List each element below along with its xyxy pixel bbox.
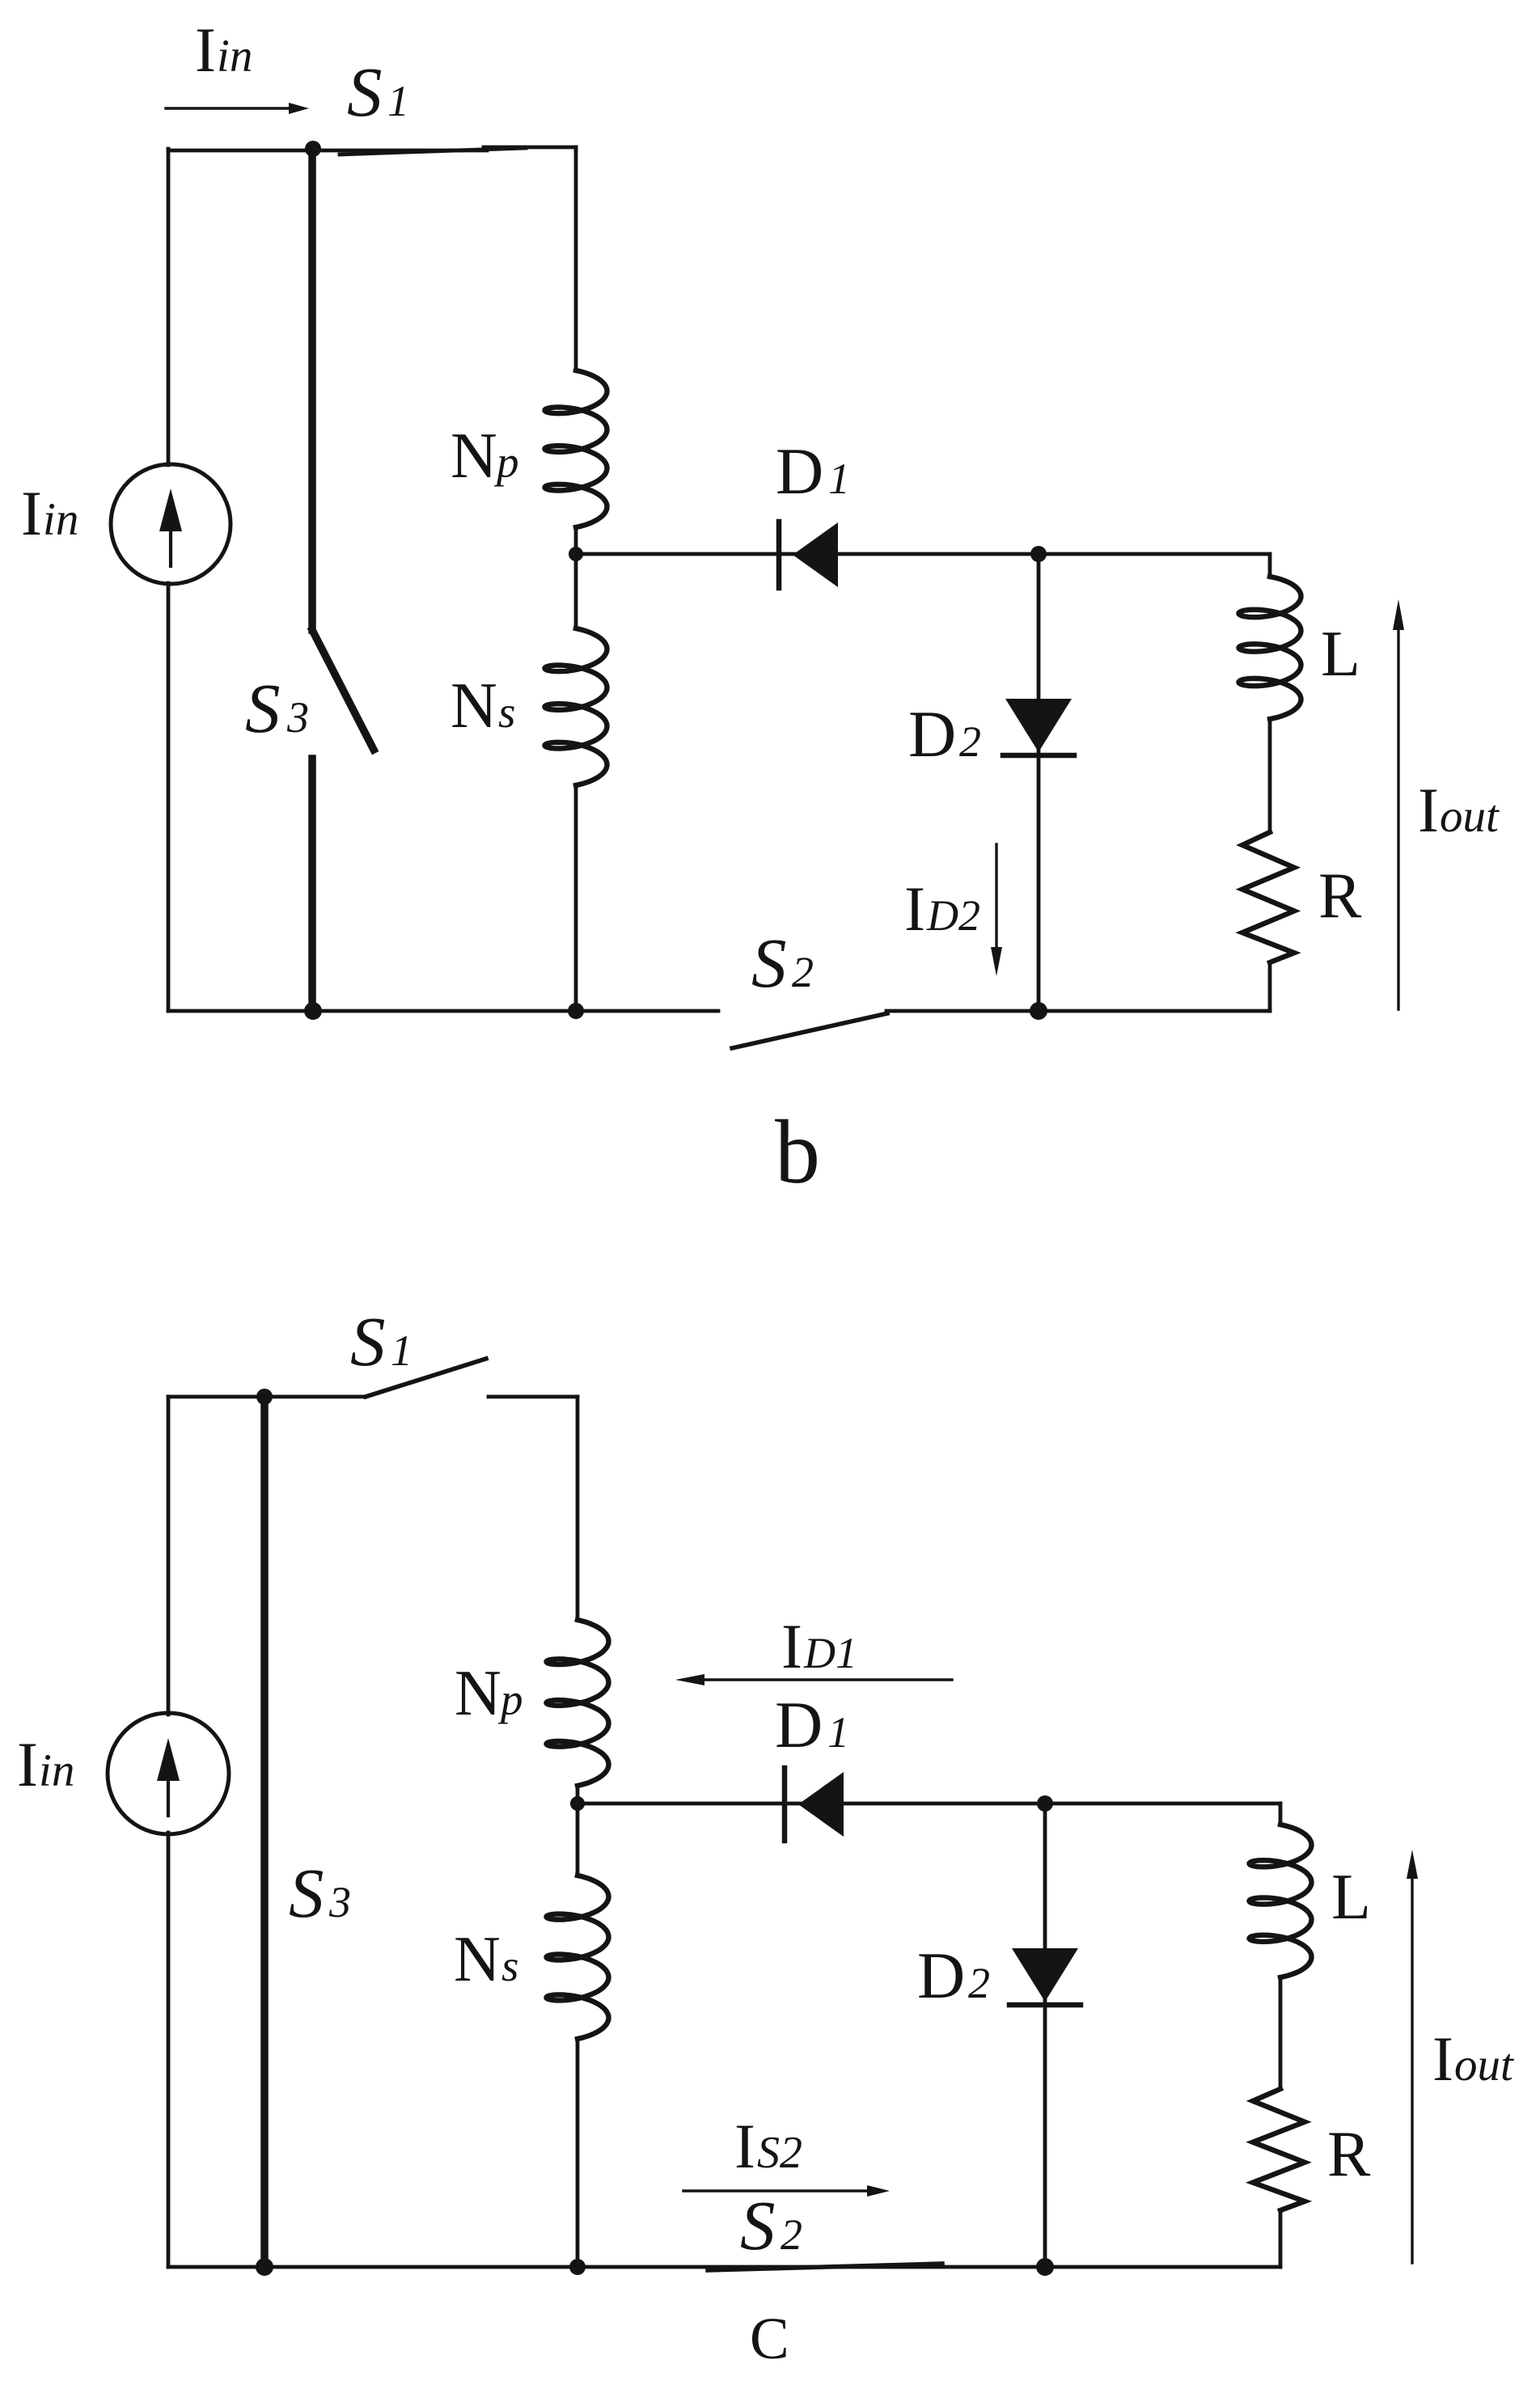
- svg-text:in: in: [43, 494, 78, 545]
- svg-text:I: I: [21, 478, 42, 548]
- svg-text:s: s: [501, 1941, 518, 1990]
- svg-text:N: N: [455, 1658, 501, 1729]
- svg-text:1: 1: [827, 1708, 849, 1757]
- svg-text:2: 2: [959, 717, 981, 766]
- svg-text:D: D: [776, 434, 823, 508]
- svg-text:S: S: [347, 53, 383, 131]
- svg-text:D: D: [917, 1939, 965, 2012]
- svg-text:p: p: [493, 438, 519, 487]
- svg-text:I: I: [781, 1611, 802, 1681]
- svg-text:2: 2: [781, 2210, 802, 2259]
- svg-text:S: S: [245, 669, 281, 747]
- svg-text:D2: D2: [926, 891, 980, 940]
- svg-text:in: in: [39, 1745, 74, 1796]
- svg-text:R: R: [1327, 2119, 1371, 2190]
- svg-text:C: C: [750, 2306, 789, 2371]
- svg-text:out: out: [1454, 2040, 1514, 2091]
- svg-text:D1: D1: [803, 1629, 857, 1677]
- svg-text:I: I: [17, 1729, 38, 1799]
- svg-text:s: s: [498, 687, 515, 737]
- svg-text:p: p: [497, 1675, 523, 1724]
- svg-text:S: S: [350, 1302, 386, 1381]
- svg-text:I: I: [1418, 775, 1439, 845]
- svg-text:3: 3: [328, 1878, 351, 1926]
- svg-text:S: S: [751, 924, 787, 1002]
- svg-text:b: b: [775, 1102, 820, 1203]
- svg-text:L: L: [1331, 1862, 1371, 1933]
- svg-text:S: S: [289, 1854, 324, 1932]
- svg-text:R: R: [1318, 861, 1362, 932]
- svg-text:D: D: [908, 697, 956, 771]
- svg-text:2: 2: [968, 1959, 990, 2007]
- svg-text:N: N: [454, 1924, 501, 1995]
- svg-text:1: 1: [828, 455, 850, 503]
- svg-text:S2: S2: [757, 2128, 802, 2178]
- svg-text:in: in: [217, 31, 252, 82]
- svg-text:3: 3: [286, 693, 309, 742]
- svg-text:1: 1: [391, 1326, 412, 1375]
- svg-text:1: 1: [387, 77, 409, 125]
- svg-text:out: out: [1440, 791, 1500, 842]
- svg-text:L: L: [1321, 619, 1360, 690]
- svg-text:2: 2: [792, 948, 814, 996]
- svg-text:I: I: [1432, 2023, 1453, 2094]
- svg-text:I: I: [904, 873, 925, 944]
- svg-text:I: I: [195, 15, 216, 85]
- svg-text:D: D: [775, 1688, 823, 1761]
- svg-text:N: N: [451, 670, 497, 742]
- svg-text:I: I: [734, 2111, 755, 2181]
- svg-text:N: N: [451, 421, 497, 492]
- svg-text:S: S: [740, 2186, 776, 2264]
